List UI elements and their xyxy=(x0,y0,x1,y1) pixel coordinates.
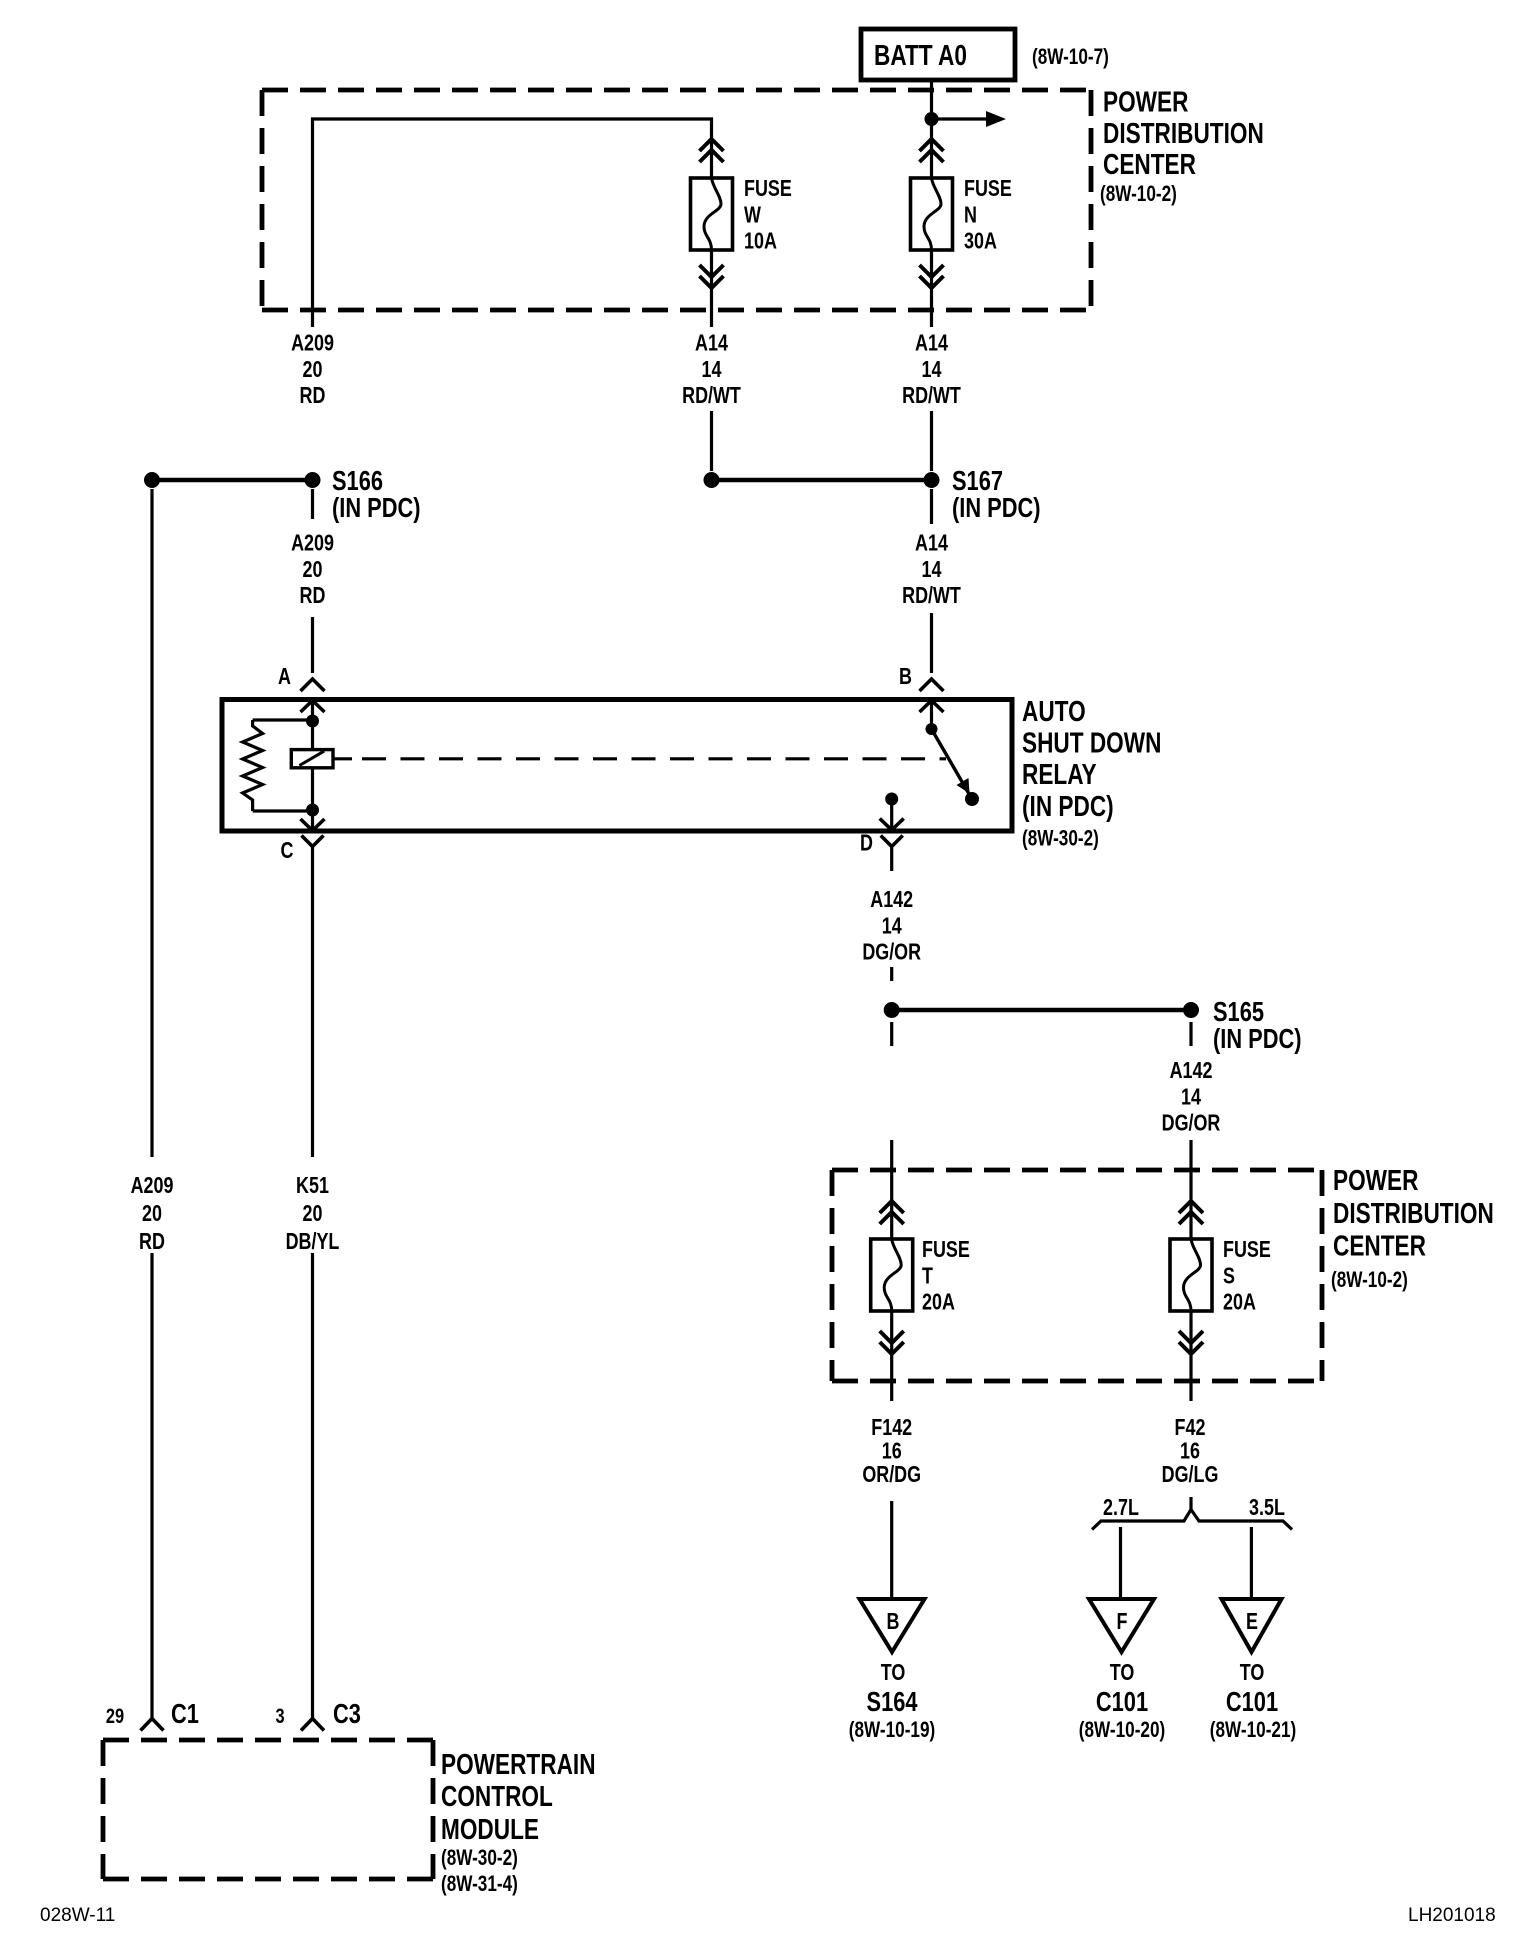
svg-text:A209: A209 xyxy=(131,1173,174,1199)
svg-text:DISTRIBUTION: DISTRIBUTION xyxy=(1333,1196,1494,1229)
svg-text:20: 20 xyxy=(303,357,323,383)
svg-text:RD: RD xyxy=(300,583,326,609)
svg-text:(IN PDC): (IN PDC) xyxy=(1213,1023,1302,1054)
svg-text:(8W-10-2): (8W-10-2) xyxy=(1331,1268,1408,1293)
svg-text:C3: C3 xyxy=(333,1698,361,1729)
svg-text:(8W-10-7): (8W-10-7) xyxy=(1032,45,1109,70)
svg-text:BATT A0: BATT A0 xyxy=(874,38,967,71)
svg-text:B: B xyxy=(899,664,912,690)
svg-text:F142: F142 xyxy=(871,1415,912,1441)
svg-text:14: 14 xyxy=(922,357,942,383)
svg-text:S164: S164 xyxy=(867,1686,918,1717)
svg-text:20A: 20A xyxy=(922,1290,955,1316)
svg-text:DG/OR: DG/OR xyxy=(1162,1111,1221,1137)
svg-text:C: C xyxy=(281,838,294,864)
svg-text:16: 16 xyxy=(1180,1438,1200,1464)
svg-text:POWERTRAIN: POWERTRAIN xyxy=(441,1747,596,1780)
svg-text:W: W xyxy=(744,202,761,228)
svg-text:A209: A209 xyxy=(291,530,334,556)
svg-text:CENTER: CENTER xyxy=(1103,147,1196,180)
svg-text:A: A xyxy=(278,664,291,690)
svg-text:N: N xyxy=(964,202,977,228)
svg-text:20: 20 xyxy=(142,1201,162,1227)
svg-text:K51: K51 xyxy=(296,1173,329,1199)
svg-text:RELAY: RELAY xyxy=(1022,757,1097,790)
svg-text:A14: A14 xyxy=(695,331,728,357)
svg-text:FUSE: FUSE xyxy=(744,176,792,202)
svg-text:E: E xyxy=(1246,1609,1258,1635)
svg-text:CONTROL: CONTROL xyxy=(441,1779,553,1812)
svg-text:14: 14 xyxy=(922,557,942,583)
svg-text:LH201018: LH201018 xyxy=(1408,1905,1496,1926)
svg-text:F: F xyxy=(1117,1609,1128,1635)
svg-text:10A: 10A xyxy=(744,229,777,255)
svg-text:C1: C1 xyxy=(171,1698,199,1729)
svg-text:TO: TO xyxy=(1110,1660,1135,1686)
svg-text:C101: C101 xyxy=(1226,1686,1278,1717)
svg-text:A142: A142 xyxy=(870,887,913,913)
svg-text:F42: F42 xyxy=(1175,1415,1206,1441)
svg-text:POWER: POWER xyxy=(1103,85,1189,118)
svg-text:DISTRIBUTION: DISTRIBUTION xyxy=(1103,116,1264,149)
svg-text:SHUT DOWN: SHUT DOWN xyxy=(1022,726,1161,759)
svg-text:(8W-10-2): (8W-10-2) xyxy=(1100,182,1177,207)
svg-text:AUTO: AUTO xyxy=(1022,694,1086,727)
svg-text:TO: TO xyxy=(881,1660,906,1686)
svg-text:(8W-31-4): (8W-31-4) xyxy=(441,1872,518,1897)
svg-text:T: T xyxy=(922,1263,933,1289)
svg-text:20: 20 xyxy=(303,1201,323,1227)
svg-text:A14: A14 xyxy=(915,331,948,357)
svg-text:3: 3 xyxy=(275,1704,284,1727)
svg-text:FUSE: FUSE xyxy=(964,176,1012,202)
svg-text:2.7L: 2.7L xyxy=(1103,1495,1139,1521)
svg-text:DB/YL: DB/YL xyxy=(286,1229,340,1255)
svg-text:(8W-30-2): (8W-30-2) xyxy=(441,1846,518,1871)
svg-text:RD/WT: RD/WT xyxy=(902,383,961,409)
svg-text:(8W-10-19): (8W-10-19) xyxy=(849,1718,935,1743)
svg-text:TO: TO xyxy=(1240,1660,1265,1686)
svg-text:D: D xyxy=(860,830,873,856)
svg-text:14: 14 xyxy=(1181,1084,1201,1110)
svg-text:A14: A14 xyxy=(915,530,948,556)
svg-text:A209: A209 xyxy=(291,331,334,357)
svg-text:RD: RD xyxy=(139,1229,165,1255)
svg-text:(IN PDC): (IN PDC) xyxy=(1022,789,1114,822)
svg-text:29: 29 xyxy=(106,1704,124,1727)
svg-text:C101: C101 xyxy=(1096,1686,1148,1717)
svg-text:FUSE: FUSE xyxy=(1223,1237,1271,1263)
svg-text:(8W-10-21): (8W-10-21) xyxy=(1210,1718,1296,1743)
svg-text:DG/LG: DG/LG xyxy=(1162,1462,1219,1488)
svg-text:30A: 30A xyxy=(964,229,997,255)
svg-text:A142: A142 xyxy=(1170,1058,1213,1084)
svg-text:028W-11: 028W-11 xyxy=(40,1905,115,1926)
svg-text:RD/WT: RD/WT xyxy=(682,383,741,409)
svg-text:RD/WT: RD/WT xyxy=(902,583,961,609)
svg-text:CENTER: CENTER xyxy=(1333,1229,1426,1262)
svg-text:(8W-30-2): (8W-30-2) xyxy=(1022,827,1099,852)
svg-text:20A: 20A xyxy=(1223,1290,1256,1316)
svg-text:FUSE: FUSE xyxy=(922,1237,970,1263)
svg-text:DG/OR: DG/OR xyxy=(862,940,921,966)
svg-text:3.5L: 3.5L xyxy=(1249,1495,1285,1521)
svg-text:B: B xyxy=(887,1609,900,1635)
svg-text:MODULE: MODULE xyxy=(441,1812,539,1845)
svg-text:14: 14 xyxy=(702,357,722,383)
svg-text:S: S xyxy=(1223,1263,1235,1289)
svg-text:POWER: POWER xyxy=(1333,1163,1419,1196)
svg-text:16: 16 xyxy=(882,1438,902,1464)
svg-text:(IN PDC): (IN PDC) xyxy=(952,492,1041,523)
svg-text:(IN PDC): (IN PDC) xyxy=(332,492,421,523)
svg-text:14: 14 xyxy=(882,913,902,939)
svg-text:RD: RD xyxy=(300,383,326,409)
svg-text:OR/DG: OR/DG xyxy=(862,1462,921,1488)
svg-text:20: 20 xyxy=(303,557,323,583)
svg-text:(8W-10-20): (8W-10-20) xyxy=(1079,1718,1165,1743)
